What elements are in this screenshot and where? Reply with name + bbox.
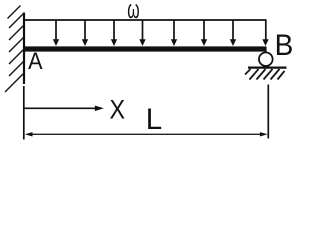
load arrow 6	[201, 20, 207, 46]
beam	[23, 46, 267, 51]
wall line	[23, 13, 25, 85]
left extension line	[23, 86, 25, 140]
wall hatching	[5, 6, 24, 93]
svg-text:X: X	[110, 95, 126, 125]
load arrow 2	[82, 20, 88, 46]
roller ground hatching	[245, 69, 285, 80]
load arrow 5	[171, 20, 177, 46]
load arrow 7	[230, 20, 236, 46]
svg-text:L: L	[146, 103, 162, 136]
load arrow 8 (end of load line)	[262, 20, 268, 46]
dimension right arrowhead	[260, 132, 268, 136]
roller circle at B	[259, 52, 273, 66]
roller ground line	[248, 66, 287, 68]
load arrow 4	[139, 20, 145, 46]
right extension line	[267, 85, 269, 139]
svg-text:ω: ω	[127, 0, 139, 24]
load arrow 3	[111, 20, 117, 46]
svg-text:B: B	[275, 29, 294, 62]
dimension left arrowhead	[25, 132, 33, 136]
distributed load top line	[24, 19, 267, 21]
svg-text:A: A	[28, 47, 43, 75]
dimension line L	[27, 133, 265, 135]
X axis arrow	[25, 106, 104, 112]
load arrow 1	[53, 20, 59, 46]
